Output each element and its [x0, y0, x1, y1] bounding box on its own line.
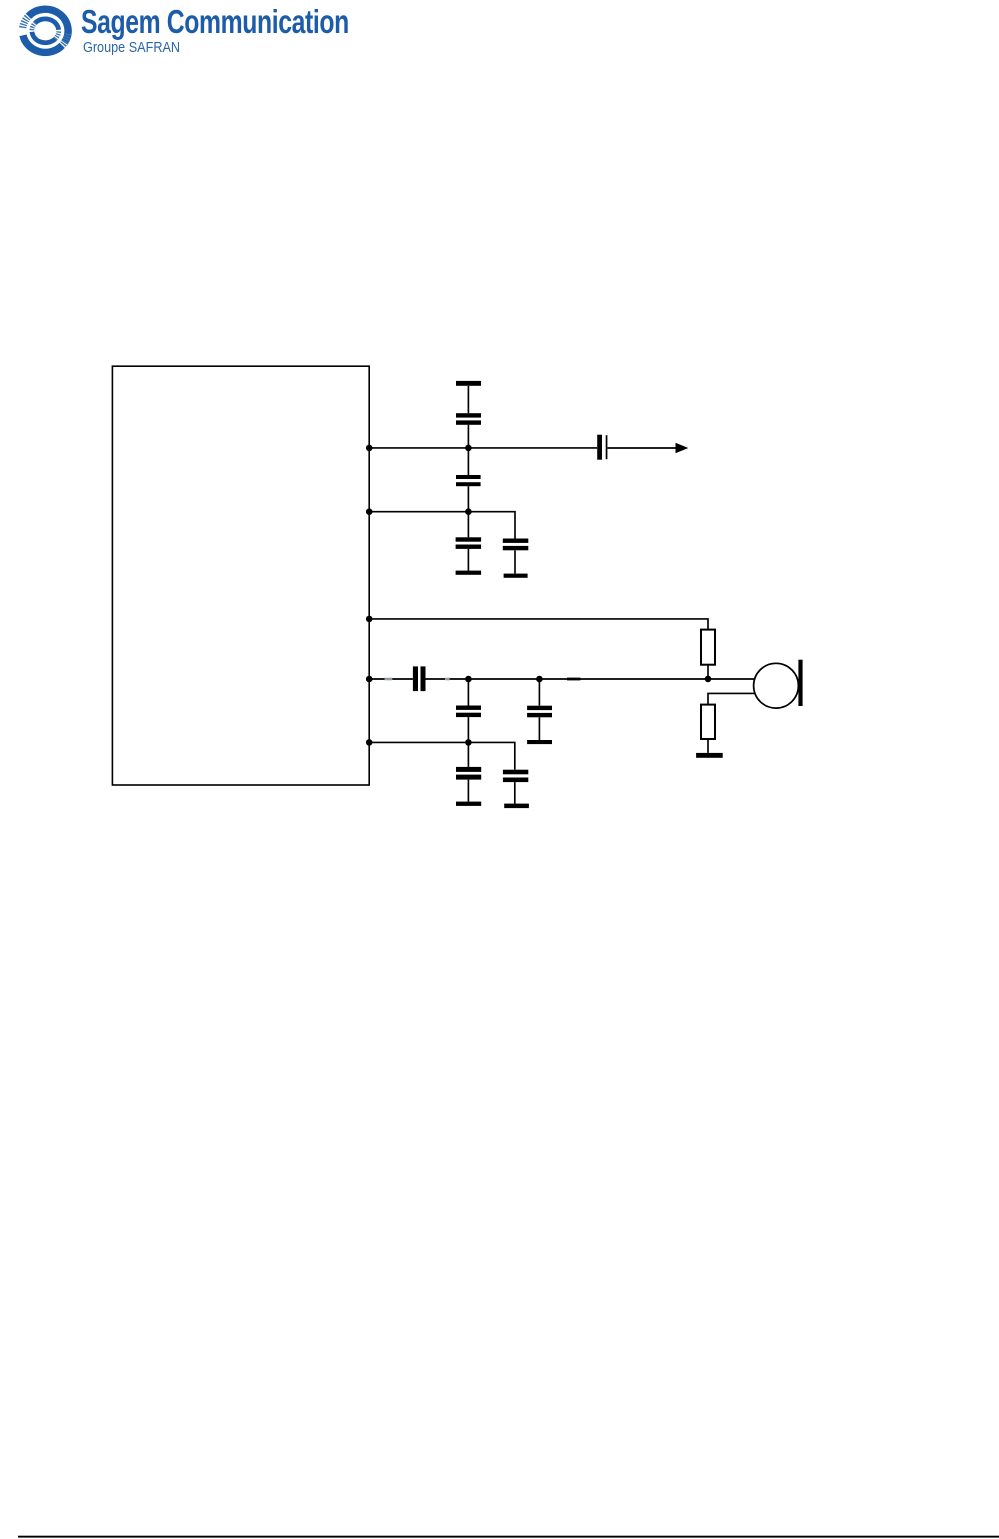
wire net 5 — [369, 741, 468, 743]
ground bar C10 — [504, 804, 529, 809]
wire — [467, 549, 469, 571]
wire — [467, 679, 469, 706]
wire — [467, 386, 469, 413]
wire — [514, 782, 516, 804]
node pin4 — [366, 676, 373, 683]
wire — [467, 486, 469, 512]
capacitor C8 — [527, 706, 552, 718]
node pin1 — [366, 445, 373, 452]
wire — [707, 739, 709, 753]
wire — [607, 447, 676, 449]
wire net 4 — [369, 678, 413, 680]
capacitor C3 — [456, 537, 482, 549]
node F mic bias — [705, 676, 712, 683]
ground bar C3 — [456, 571, 482, 575]
arrow output — [676, 443, 689, 453]
IC block U1 — [112, 366, 369, 785]
logo text Sagem Communication — [81, 3, 349, 41]
node pin3 — [366, 616, 373, 623]
capacitor C1 — [456, 413, 481, 425]
wire — [538, 679, 540, 706]
wire — [538, 717, 540, 740]
wire — [467, 425, 469, 448]
wire — [514, 550, 516, 573]
node pin5 — [366, 739, 373, 746]
ground — [696, 753, 723, 758]
capacitor C6 — [413, 666, 426, 691]
node D — [536, 676, 543, 683]
gray dash 1 — [385, 678, 393, 681]
capacitor C9 — [456, 767, 481, 780]
capacitor C7 — [456, 706, 481, 718]
wire net OUT1 — [369, 447, 597, 449]
gray dash 2 — [445, 678, 450, 681]
wire net 3 — [369, 619, 708, 630]
node C — [465, 676, 472, 683]
microphone back plate — [798, 660, 802, 706]
capacitor C2 — [456, 475, 481, 486]
power rail bar VCC — [456, 381, 481, 386]
wire — [467, 780, 469, 802]
wire mic lower — [708, 693, 755, 704]
ground bar C9 — [456, 802, 481, 806]
wire — [468, 742, 514, 769]
wire thick mark — [567, 678, 580, 681]
capacitor C10 — [503, 770, 528, 782]
resistor R2 — [701, 705, 715, 739]
microphone MK1 — [754, 663, 799, 708]
node pin2 — [366, 508, 373, 515]
node B — [465, 508, 472, 515]
ground bar C8 — [527, 740, 552, 744]
wire — [467, 448, 469, 475]
wire — [467, 717, 469, 742]
wire — [467, 512, 469, 538]
capacitor C5 — [597, 435, 607, 460]
wire — [467, 742, 469, 767]
footer rule — [18, 1536, 999, 1538]
node A — [465, 445, 472, 452]
wire — [707, 665, 709, 679]
wire net 2 — [369, 512, 515, 539]
ground bar C4 — [504, 574, 528, 578]
logo text Groupe SAFRAN — [83, 40, 180, 56]
node E — [465, 739, 472, 746]
capacitor C4 — [503, 539, 529, 551]
wire — [426, 678, 755, 680]
resistor R1 — [701, 630, 715, 665]
logo mark Sagem swirl — [23, 9, 68, 52]
